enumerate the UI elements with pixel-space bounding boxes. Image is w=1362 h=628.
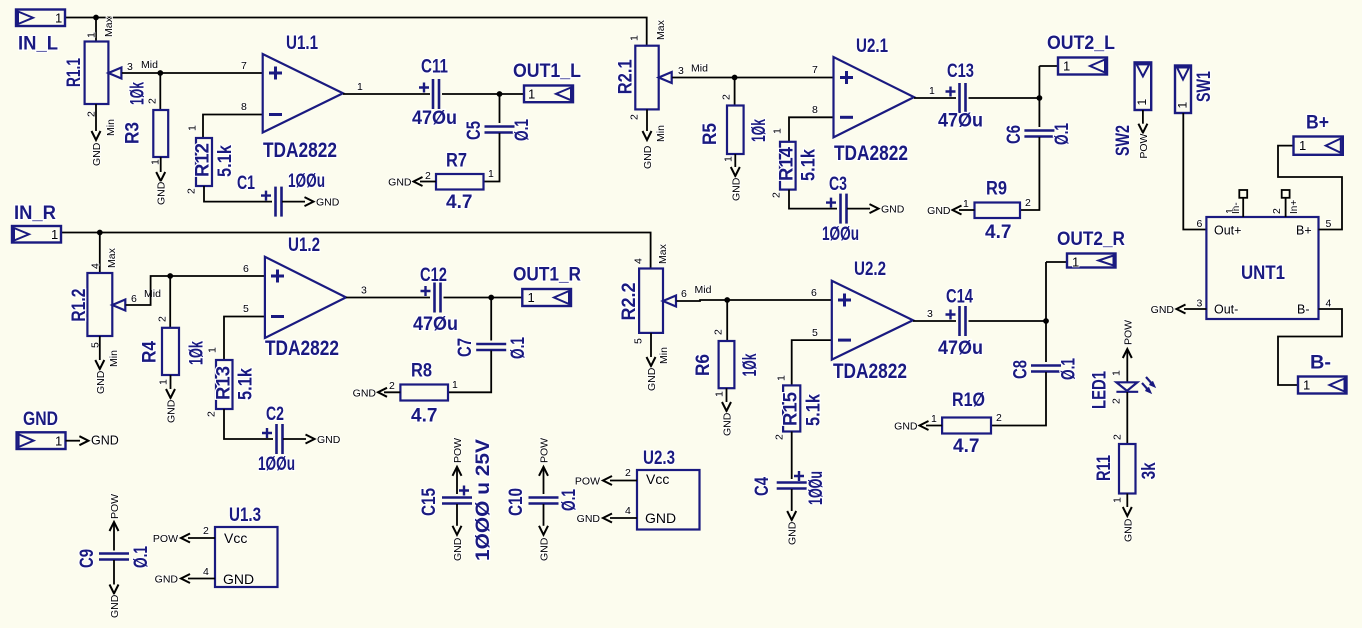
svg-text:8: 8 xyxy=(241,101,247,113)
label IN_R xyxy=(14,203,56,224)
svg-text:47Øu: 47Øu xyxy=(413,314,458,335)
pin 6 of UNT1 xyxy=(1197,218,1203,230)
svg-text:R6: R6 xyxy=(693,354,714,376)
wire inverting input U1.2 xyxy=(224,317,265,361)
svg-text:6: 6 xyxy=(243,263,249,275)
capacitor C15 xyxy=(442,486,472,504)
label U2.3 xyxy=(643,448,675,469)
ground arrow R8 xyxy=(378,388,387,397)
pin 3 of R2.1 xyxy=(678,65,684,77)
wire OUT2_R stub xyxy=(1046,261,1067,263)
pin 2 of R6 xyxy=(713,329,725,335)
svg-text:Mid: Mid xyxy=(141,59,158,71)
wire U2.3 Vcc xyxy=(610,480,637,482)
svg-text:R2.1: R2.1 xyxy=(616,59,637,94)
label LED1 xyxy=(1090,371,1111,409)
svg-text:1Øk: 1Øk xyxy=(740,353,761,376)
svg-text:R14: R14 xyxy=(777,147,798,181)
wire U1.1 output to C11 xyxy=(343,93,430,95)
svg-text:2: 2 xyxy=(425,170,431,182)
op-amp U2.2 xyxy=(832,281,913,360)
power label C10 xyxy=(539,438,551,463)
pin 6 of U2.2 xyxy=(811,287,817,299)
ground arrow GND connector xyxy=(79,436,88,445)
wire C2 to ground xyxy=(283,438,306,440)
resistor R7 xyxy=(436,174,484,190)
wire GND connector xyxy=(66,440,81,442)
label R15 xyxy=(781,392,802,426)
svg-text:2: 2 xyxy=(721,94,733,100)
svg-text:Min: Min xyxy=(658,347,670,364)
wire C4 to ground xyxy=(791,489,793,511)
ground label C2 xyxy=(317,434,341,446)
ground label C3 xyxy=(881,204,905,216)
pin 2 of R13 xyxy=(206,411,218,417)
svg-text:R4: R4 xyxy=(140,341,161,363)
svg-text:R1.2: R1.2 xyxy=(69,289,90,322)
svg-text:POW: POW xyxy=(153,533,178,545)
svg-text:5: 5 xyxy=(633,338,645,344)
junction OUT2_L xyxy=(1037,95,1043,101)
net Min at R1.1 xyxy=(105,119,117,136)
potentiometer R1.1 xyxy=(85,42,122,105)
svg-text:2: 2 xyxy=(186,188,198,194)
name Out+ of UNT1 xyxy=(1214,224,1241,238)
pin 7 of U2.1 xyxy=(812,64,818,76)
svg-text:1: 1 xyxy=(158,379,170,385)
svg-text:8: 8 xyxy=(812,104,818,116)
svg-text:GND: GND xyxy=(894,421,918,433)
svg-text:Vcc: Vcc xyxy=(646,471,669,487)
pin 7 of U1.1 xyxy=(241,60,247,72)
connector OUT1_L xyxy=(524,86,573,103)
svg-text:Max: Max xyxy=(106,247,118,268)
pin 1 of B- xyxy=(1303,378,1310,393)
potentiometer R1.2 xyxy=(87,273,125,336)
value 10k of R5 xyxy=(749,119,770,142)
svg-text:R9: R9 xyxy=(986,179,1007,200)
label SW1 xyxy=(1194,71,1215,102)
pin 1 of R7 xyxy=(488,168,494,180)
svg-text:OUT1_R: OUT1_R xyxy=(513,265,581,286)
svg-text:Min: Min xyxy=(655,125,667,142)
ground arrow R3 xyxy=(156,172,165,181)
svg-text:U2.2: U2.2 xyxy=(854,259,886,280)
svg-text:1: 1 xyxy=(357,81,363,93)
pin 1 of R2.1 xyxy=(629,35,641,41)
wire U1.3 GND xyxy=(188,578,215,580)
label C3 xyxy=(829,174,847,195)
net Mid at R1.1 xyxy=(141,59,158,71)
svg-text:2: 2 xyxy=(1025,197,1031,209)
svg-text:2: 2 xyxy=(1112,434,1124,440)
wire U1.2 output to C12 xyxy=(346,297,430,299)
value 100u of C1 xyxy=(288,171,325,192)
pin 3 of U2.2 output xyxy=(927,308,933,320)
pin 1 of GND connector xyxy=(55,434,62,449)
ground arrow C2 xyxy=(306,435,315,444)
pin 4 of R2.2 xyxy=(633,258,645,264)
wire R9 to ground xyxy=(959,209,975,211)
wire R13 to C2 xyxy=(224,409,273,439)
svg-text:GND: GND xyxy=(646,367,658,391)
svg-text:U2.1: U2.1 xyxy=(856,36,888,57)
name Vcc of U2.3 xyxy=(646,471,669,487)
pin 1 of OUT1_R xyxy=(528,290,535,305)
pin 2 of R7 xyxy=(425,170,431,182)
pin 2 of R4 xyxy=(157,316,169,322)
pin 2 of R5 xyxy=(721,94,733,100)
label R3 xyxy=(123,122,144,144)
label C1 xyxy=(237,173,255,194)
svg-text:B+: B+ xyxy=(1306,112,1329,133)
svg-text:1: 1 xyxy=(207,347,219,353)
pin 1 of SW1 xyxy=(1176,102,1190,109)
svg-text:2: 2 xyxy=(157,316,169,322)
svg-text:1ØØu: 1ØØu xyxy=(288,171,325,192)
connector GND xyxy=(17,432,66,449)
wire R14 to C3 xyxy=(789,190,837,209)
ground label C15 xyxy=(452,537,464,561)
svg-text:C3: C3 xyxy=(829,174,847,195)
wire POW to C9 xyxy=(113,522,115,551)
junction R4 tap xyxy=(167,273,173,279)
svg-text:2: 2 xyxy=(629,114,641,120)
ground label R2.1 xyxy=(642,145,654,169)
svg-text:C15: C15 xyxy=(419,488,440,516)
svg-text:C7: C7 xyxy=(455,338,476,357)
connector OUT2_L xyxy=(1058,58,1107,75)
svg-text:1: 1 xyxy=(1072,255,1079,270)
ground arrow R4 xyxy=(166,389,175,398)
svg-text:5.1k: 5.1k xyxy=(799,149,820,181)
svg-text:6: 6 xyxy=(811,287,817,299)
label R8 xyxy=(411,361,432,382)
value 4.7 of R8 xyxy=(411,406,437,427)
svg-text:Min: Min xyxy=(105,119,117,136)
label R13 xyxy=(213,366,234,400)
svg-text:3: 3 xyxy=(1197,298,1203,310)
svg-text:6: 6 xyxy=(681,288,687,300)
net Max at R1.1 xyxy=(103,16,115,37)
label U1.3 xyxy=(229,505,261,526)
svg-text:1: 1 xyxy=(1112,497,1124,503)
name Out- of UNT1 xyxy=(1214,303,1238,317)
svg-text:4: 4 xyxy=(203,566,209,578)
ground arrow R9 xyxy=(953,206,962,215)
wire R1.1 wiper to U1.1 xyxy=(122,72,263,74)
pin 1 of R1.1 xyxy=(86,32,98,38)
net Mid at R2.1 xyxy=(691,63,708,75)
pin 2 of R8 xyxy=(389,380,395,392)
op-amp U2.1 xyxy=(834,57,915,137)
svg-text:3: 3 xyxy=(678,65,684,77)
pin 1 of UNT1 xyxy=(1224,208,1236,214)
wire R2.2 pin5 to ground xyxy=(650,333,652,357)
wire inverting input U2.1 xyxy=(789,117,834,142)
ground label C9 xyxy=(109,594,121,618)
label R4 xyxy=(140,341,161,363)
resistor R9 xyxy=(975,203,1021,219)
pin 6 of R1.2 xyxy=(131,293,137,305)
power label U1.3 xyxy=(153,533,178,545)
IC power block U1.3 xyxy=(215,527,278,587)
svg-text:2: 2 xyxy=(771,192,783,198)
pin 1 of R5 xyxy=(723,156,735,162)
label R5 xyxy=(700,123,721,145)
svg-text:2: 2 xyxy=(774,434,786,440)
label R9 xyxy=(986,179,1007,200)
junction R6 tap xyxy=(724,297,730,303)
svg-text:GND: GND xyxy=(787,521,799,545)
value 5.1k of R14 xyxy=(799,149,820,181)
svg-text:GND: GND xyxy=(91,142,103,166)
wire SW1 to UNT1 xyxy=(1183,113,1206,230)
value 470u of C13 xyxy=(938,111,983,132)
svg-text:Max: Max xyxy=(103,16,115,37)
wire tap to R6 xyxy=(726,300,728,341)
svg-text:GND: GND xyxy=(388,177,412,189)
ground label R3 xyxy=(156,181,168,205)
power label C15 xyxy=(452,438,464,463)
capacitor C4 xyxy=(777,471,807,489)
wire R2.2 wiper to U2.2 xyxy=(677,300,832,301)
wire UNT1 Out- to ground xyxy=(1184,308,1206,310)
resistor R12 xyxy=(196,138,212,186)
pin 1 of OUT1_L xyxy=(528,87,535,102)
connector IN_R xyxy=(12,226,61,243)
svg-text:LED1: LED1 xyxy=(1090,371,1111,409)
svg-text:2: 2 xyxy=(625,467,631,479)
pin 5 of U1.2 xyxy=(243,303,249,315)
pin 4 of U2.3 xyxy=(625,505,631,517)
pin 2 of R10 xyxy=(996,412,1002,424)
svg-text:U1.3: U1.3 xyxy=(229,505,261,526)
svg-text:Ø.1: Ø.1 xyxy=(131,546,152,568)
svg-text:GND: GND xyxy=(642,145,654,169)
value 0.1 of C5 xyxy=(512,119,533,141)
pin 5 of UNT1 xyxy=(1326,218,1332,230)
wire In+ stem xyxy=(1285,198,1287,217)
ground arrow R1.2 xyxy=(95,360,104,369)
svg-text:1: 1 xyxy=(150,159,162,165)
wire R3 to ground xyxy=(160,157,162,172)
power label SW2 xyxy=(1138,133,1150,158)
svg-text:4: 4 xyxy=(625,505,631,517)
wire C15 to ground xyxy=(456,504,458,526)
pin 1 of R10 xyxy=(931,413,937,425)
power arrow SW2 xyxy=(1138,124,1147,133)
wire R2.1 wiper to U2.1 xyxy=(672,77,833,79)
wire tap to R5 xyxy=(734,78,736,106)
pin 1 of IN_L xyxy=(55,11,62,26)
ground arrow C15 xyxy=(453,526,462,535)
label R2.2 xyxy=(619,283,640,321)
label R1.1 xyxy=(64,58,85,87)
svg-text:5.1k: 5.1k xyxy=(803,394,824,426)
value 100u of C4 xyxy=(806,471,827,505)
label R1.2 xyxy=(69,289,90,322)
pin 2 of R14 xyxy=(771,192,783,198)
svg-text:1: 1 xyxy=(772,128,784,134)
svg-text:C11: C11 xyxy=(421,57,448,78)
wire C5 to R7 xyxy=(484,133,500,182)
power arrow U2.3 xyxy=(603,476,612,485)
svg-text:1: 1 xyxy=(1176,102,1190,109)
svg-text:4: 4 xyxy=(633,258,645,264)
value 0.1 of C10 xyxy=(559,489,580,511)
label U1.1 xyxy=(286,33,318,54)
net Max at R2.2 xyxy=(657,243,669,264)
svg-text:5.1k: 5.1k xyxy=(236,368,257,400)
svg-text:1: 1 xyxy=(931,413,937,425)
wire U2.2 output to C14 xyxy=(913,320,956,322)
svg-text:GND: GND xyxy=(353,387,377,399)
svg-text:7: 7 xyxy=(241,60,247,72)
svg-text:2: 2 xyxy=(1111,398,1123,404)
svg-text:R11: R11 xyxy=(1094,455,1115,481)
connector OUT2_R xyxy=(1067,254,1116,268)
net Max at R1.2 xyxy=(106,247,118,268)
svg-text:1: 1 xyxy=(452,379,458,391)
ground label C4 xyxy=(787,521,799,545)
svg-text:3: 3 xyxy=(927,308,933,320)
wire C13 to OUT2_L xyxy=(969,97,1040,99)
pin 2 of U1.3 xyxy=(203,525,209,537)
ground arrow R10 xyxy=(920,421,929,430)
svg-text:C12: C12 xyxy=(420,265,447,286)
svg-text:1Øk: 1Øk xyxy=(128,82,149,105)
value 4.7 of R7 xyxy=(446,192,472,213)
wire inverting input U1.1 xyxy=(203,115,263,139)
pin 1 of R3 xyxy=(150,159,162,165)
pin 1 of OUT2_L xyxy=(1063,59,1070,74)
label U2.2 xyxy=(854,259,886,280)
wire OUT2_R drop xyxy=(1045,262,1047,362)
svg-text:GND: GND xyxy=(109,594,121,618)
name GND of U1.3 xyxy=(223,571,254,587)
capacitor C13 xyxy=(946,83,966,113)
svg-text:Vcc: Vcc xyxy=(224,530,247,546)
label C8 xyxy=(1011,360,1032,379)
label C4 xyxy=(752,477,773,496)
svg-text:2: 2 xyxy=(996,412,1002,424)
wire C6 to R9 xyxy=(1020,137,1039,210)
svg-text:GND: GND xyxy=(1151,304,1175,316)
wire C11 to OUT1_L xyxy=(442,93,523,95)
svg-text:GND: GND xyxy=(316,197,340,209)
power label C9 xyxy=(109,494,121,519)
svg-text:1: 1 xyxy=(714,391,726,397)
resistor R5 xyxy=(727,106,744,155)
ground arrow C4 xyxy=(787,511,796,520)
pin 4 of R1.2 xyxy=(90,263,102,269)
svg-text:Mid: Mid xyxy=(695,284,712,296)
capacitor C8 xyxy=(1031,366,1061,372)
svg-text:5: 5 xyxy=(1326,218,1332,230)
svg-text:POW: POW xyxy=(1138,133,1150,158)
svg-text:C10: C10 xyxy=(506,488,527,516)
wire R8 to ground xyxy=(384,391,400,393)
wire tap to R3 xyxy=(159,73,161,110)
pin 3 of UNT1 xyxy=(1197,298,1203,310)
wire SW2 to POW xyxy=(1142,110,1144,124)
junction R5 tap xyxy=(732,75,738,81)
svg-text:POW: POW xyxy=(109,494,121,519)
label U2.1 xyxy=(856,36,888,57)
capacitor C1 xyxy=(261,187,282,217)
wire tap to R4 xyxy=(169,276,171,328)
name In+ of UNT1 xyxy=(1289,200,1300,214)
wire C14 to OUT2_R xyxy=(969,320,1047,322)
ground arrow UNT1 xyxy=(1177,305,1186,314)
op-amp U1.2 xyxy=(265,257,346,338)
value 10k of R4 xyxy=(187,341,208,365)
svg-text:4.7: 4.7 xyxy=(953,436,979,457)
pin 1 of R15 xyxy=(776,375,788,381)
svg-text:C2: C2 xyxy=(266,404,284,425)
label R10 xyxy=(952,390,985,411)
svg-text:5: 5 xyxy=(812,327,818,339)
svg-text:1Øk: 1Øk xyxy=(187,341,208,365)
svg-text:1ØØØ u 25V: 1ØØØ u 25V xyxy=(473,439,494,561)
ground label R2.2 xyxy=(646,367,658,391)
power arrow C10 xyxy=(539,467,548,476)
label UNT1 xyxy=(1241,263,1285,284)
svg-text:2: 2 xyxy=(1271,208,1283,214)
label R12 xyxy=(193,143,214,177)
pin 2 of R2.1 xyxy=(629,114,641,120)
wire In- stem xyxy=(1242,198,1244,217)
svg-text:1: 1 xyxy=(55,11,62,26)
value 5.1k of R13 xyxy=(236,368,257,400)
svg-text:R2.2: R2.2 xyxy=(619,283,640,321)
label C10 xyxy=(506,488,527,516)
svg-text:POW: POW xyxy=(539,438,551,463)
pin 1 of B+ xyxy=(1299,138,1306,153)
svg-text:C5: C5 xyxy=(464,121,485,140)
svg-text:Out+: Out+ xyxy=(1214,224,1241,238)
svg-text:C14: C14 xyxy=(946,287,973,308)
label C14 xyxy=(946,287,973,308)
ground arrow C3 xyxy=(870,204,879,213)
pin 2 of R15 xyxy=(774,434,786,440)
svg-text:R15: R15 xyxy=(781,392,802,426)
label TDA2822 of U2.2 xyxy=(833,360,907,383)
pin 2 of R11 xyxy=(1112,434,1124,440)
IC block UNT1 xyxy=(1206,217,1318,319)
potentiometer R2.1 xyxy=(635,46,671,110)
value 10k of R6 xyxy=(740,353,761,376)
wire junction to C5 xyxy=(499,94,501,123)
potentiometer R2.2 xyxy=(639,269,676,333)
svg-text:C6: C6 xyxy=(1004,125,1025,144)
connector IN_L xyxy=(16,10,65,27)
svg-text:3k: 3k xyxy=(1139,462,1160,479)
label C7 xyxy=(455,338,476,357)
label OUT1_R xyxy=(513,265,581,286)
svg-text:1: 1 xyxy=(488,168,494,180)
svg-text:GND: GND xyxy=(927,205,951,217)
svg-text:4: 4 xyxy=(90,263,102,269)
pin 5 of R1.2 xyxy=(90,342,102,348)
wire R1.1 pin2 to ground xyxy=(95,104,97,131)
svg-text:R13: R13 xyxy=(213,366,234,400)
svg-text:GND: GND xyxy=(156,181,168,205)
wire C8 to R10 xyxy=(991,372,1046,426)
net Mid at R1.2 xyxy=(144,288,161,300)
svg-text:1Øk: 1Øk xyxy=(749,119,770,142)
